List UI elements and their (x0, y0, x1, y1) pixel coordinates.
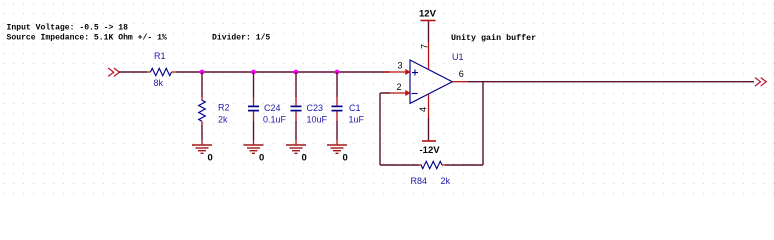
svg-text:C24: C24 (264, 103, 281, 113)
wire (253, 121, 255, 140)
ground (286, 145, 306, 153)
wire output (468, 81, 754, 83)
svg-text:R84: R84 (411, 176, 428, 186)
wire (295, 72, 297, 97)
svg-text:10uF: 10uF (307, 114, 328, 124)
svg-text:3: 3 (398, 61, 403, 71)
svg-text:Source Impedance: 5.1K Ohm +/-: Source Impedance: 5.1K Ohm +/- 1% (7, 34, 167, 43)
power +12V (421, 21, 436, 43)
pin 6 (452, 81, 468, 83)
svg-text:R2: R2 (218, 103, 230, 113)
svg-text:7: 7 (420, 44, 430, 49)
svg-text:0: 0 (302, 152, 307, 163)
svg-text:12V: 12V (419, 9, 437, 20)
svg-text:Divider: 1/5: Divider: 1/5 (212, 34, 270, 43)
svg-text:0.1uF: 0.1uF (263, 114, 287, 124)
wire feedback bottom left (380, 164, 419, 166)
port OUT (755, 78, 766, 86)
svg-text:2k: 2k (441, 176, 451, 186)
wire feedback bottom right (445, 164, 483, 166)
svg-text:0: 0 (208, 152, 213, 163)
ground (192, 145, 212, 153)
svg-text:R1: R1 (154, 51, 166, 61)
power -12V (422, 118, 436, 141)
junction node D (335, 70, 340, 75)
port IN (108, 68, 119, 76)
pin 3 (383, 69, 410, 75)
svg-text:2k: 2k (218, 115, 228, 125)
resistor R2 (199, 97, 206, 124)
wire (295, 121, 297, 140)
svg-text:0: 0 (259, 152, 264, 163)
svg-text:0: 0 (343, 152, 348, 163)
wire (201, 124, 203, 140)
svg-text:Input Voltage: -0.5 -> 18: Input Voltage: -0.5 -> 18 (7, 24, 129, 33)
svg-text:8k: 8k (154, 78, 164, 88)
svg-text:U1: U1 (452, 52, 464, 62)
capacitor C24 (248, 97, 259, 121)
pin 4 (428, 94, 430, 118)
wire (253, 72, 255, 97)
ground (244, 145, 264, 153)
svg-text:2: 2 (397, 82, 402, 92)
svg-text:1uF: 1uF (349, 114, 365, 124)
svg-text:C23: C23 (307, 103, 324, 113)
svg-text:C1: C1 (349, 103, 361, 113)
wire (119, 71, 147, 73)
junction node A (200, 70, 205, 75)
wire (336, 121, 338, 140)
wire to pin 2 (380, 92, 390, 94)
wire (201, 72, 203, 97)
resistor R84 (419, 161, 445, 168)
pin 7 (428, 42, 430, 69)
wire (336, 72, 338, 97)
junction node B (251, 70, 256, 75)
svg-text:6: 6 (459, 69, 464, 79)
capacitor C1 (332, 97, 343, 121)
resistor R1 (147, 68, 176, 75)
wire bus (176, 71, 390, 73)
svg-text:4: 4 (418, 107, 428, 112)
junction node C (294, 70, 299, 75)
svg-text:-12V: -12V (420, 145, 441, 156)
wire feedback right (482, 82, 484, 165)
pin 2 (383, 90, 410, 96)
capacitor C23 (291, 97, 302, 121)
wire feedback left (379, 93, 381, 165)
ground (327, 145, 347, 153)
svg-text:Unity gain buffer: Unity gain buffer (451, 33, 536, 43)
op-amp U1 (410, 60, 452, 103)
